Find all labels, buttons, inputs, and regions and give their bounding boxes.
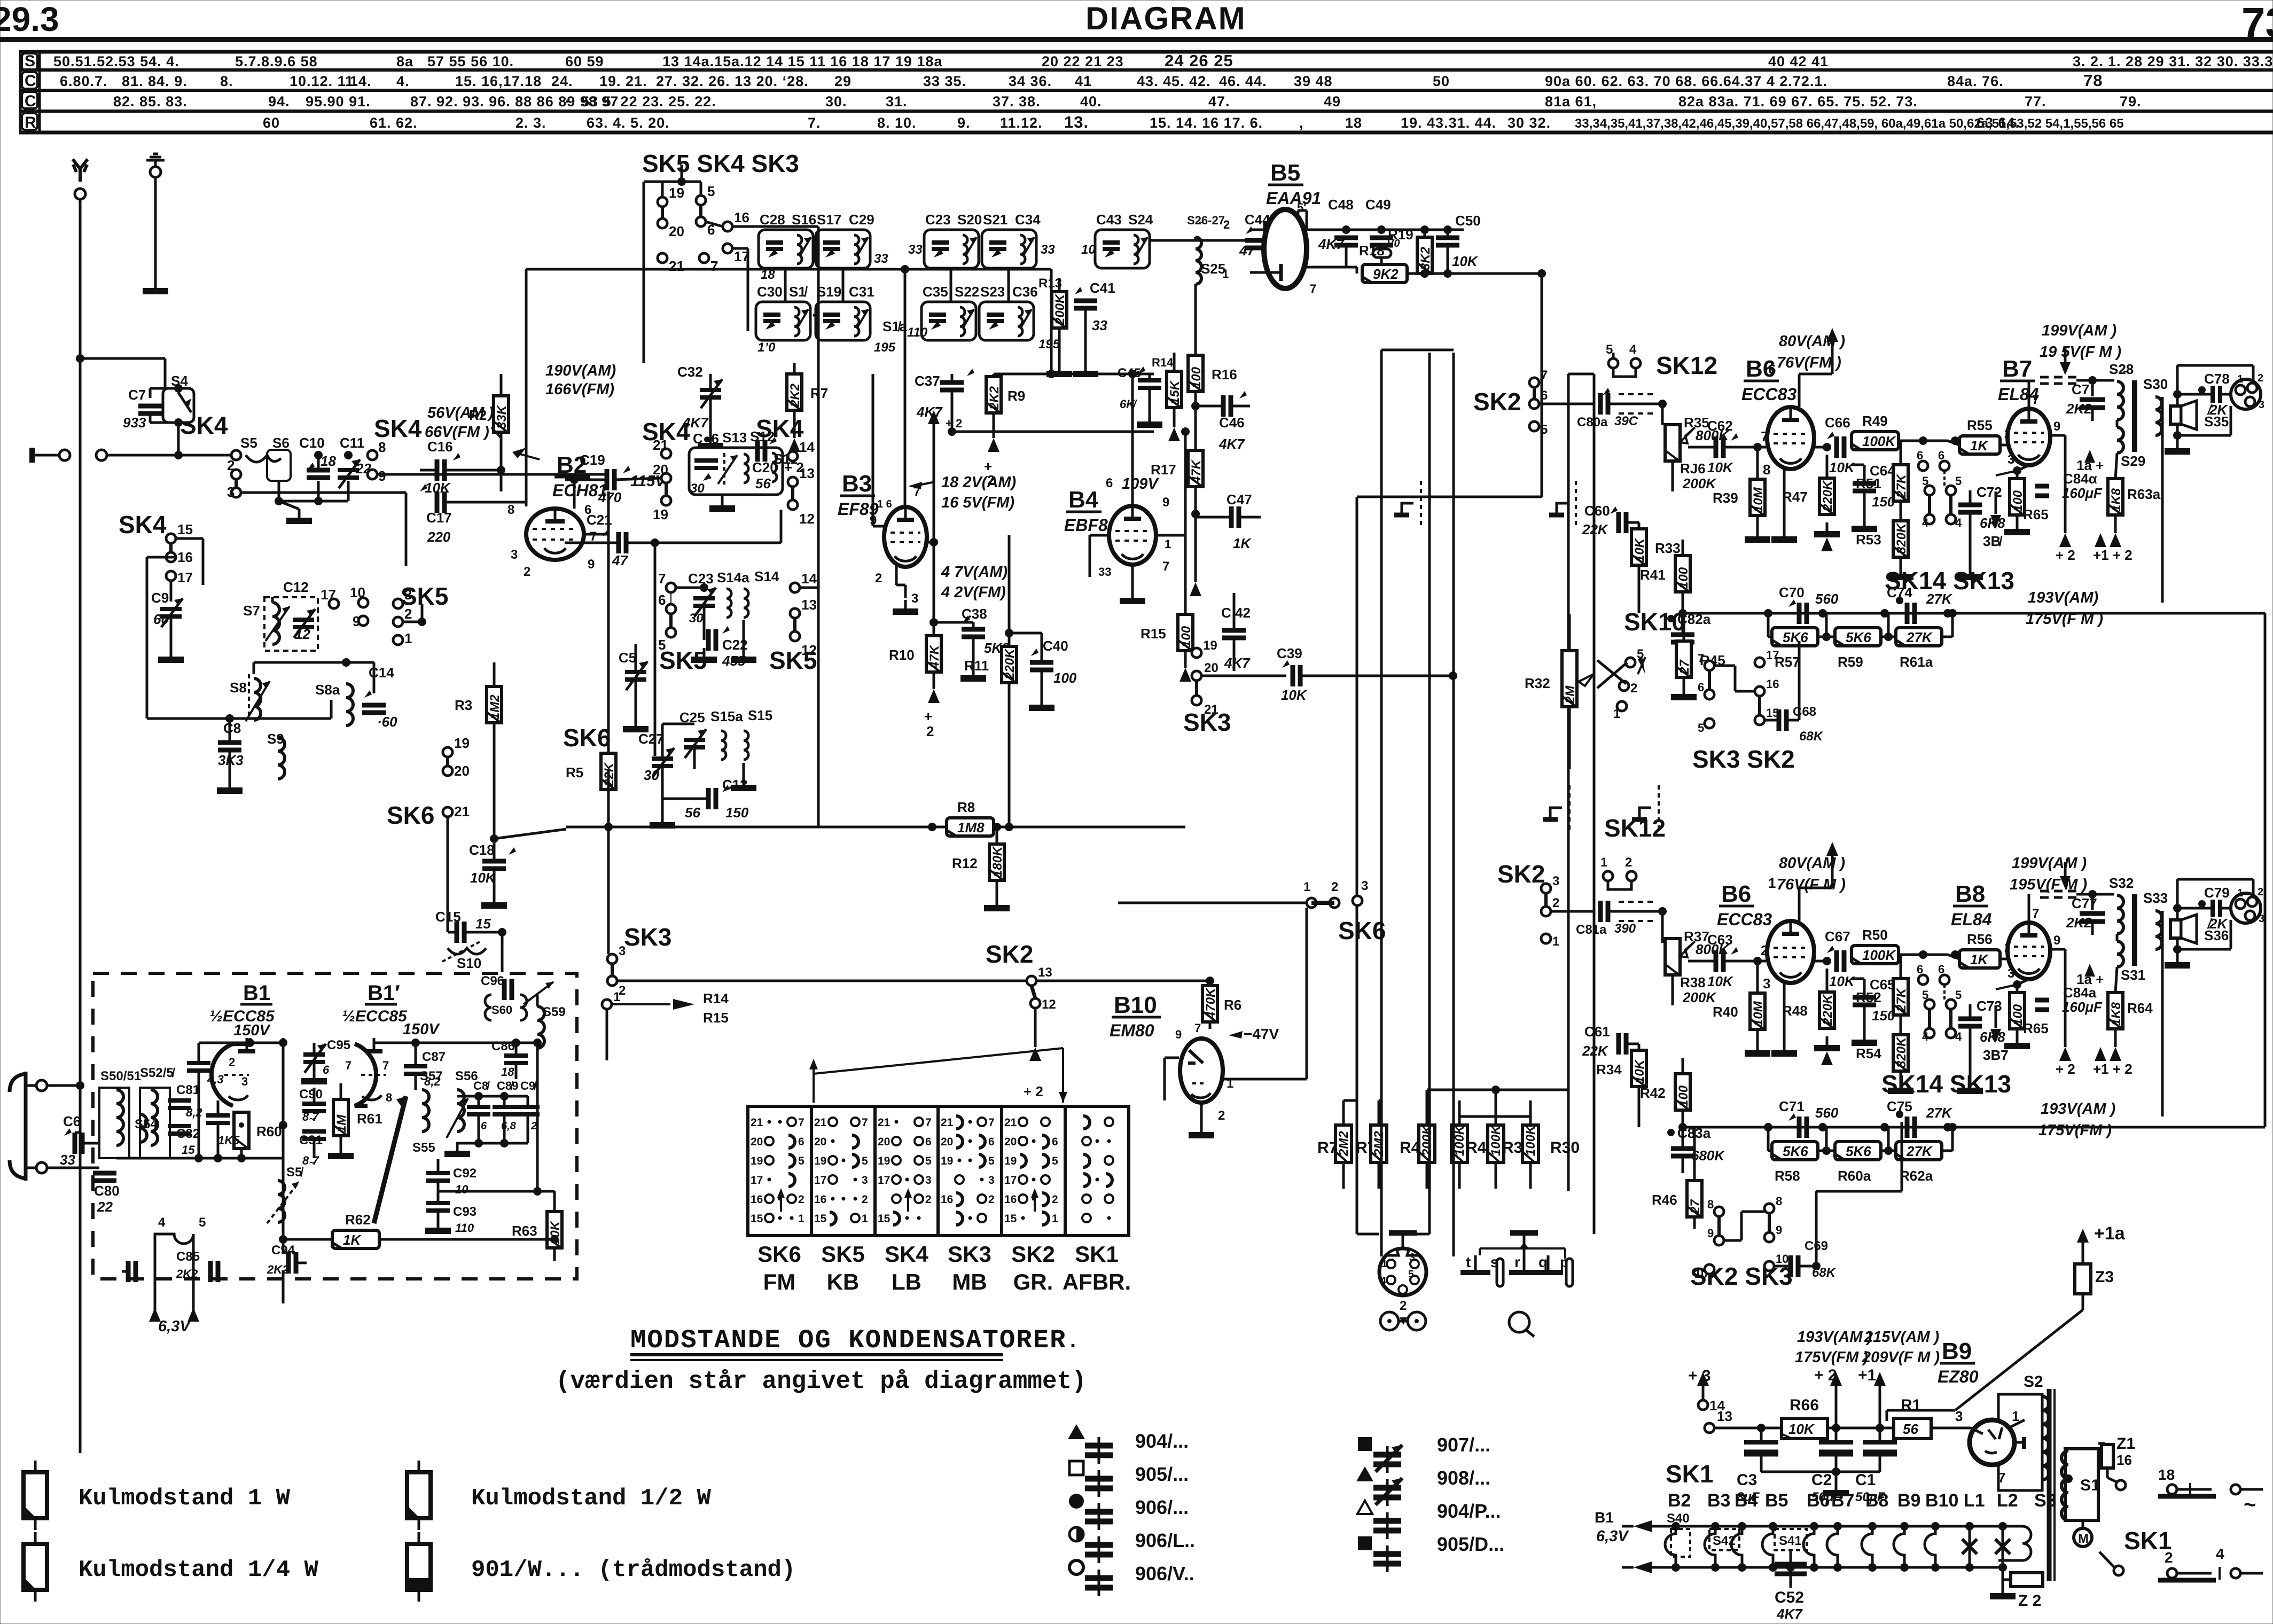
svg-text:18: 18 (321, 453, 336, 469)
resistor 2M2 (1371, 1125, 1387, 1162)
svg-text:15: 15 (751, 1213, 763, 1225)
svg-text:7: 7 (1541, 368, 1548, 382)
svg-text:27: 27 (1688, 1199, 1702, 1214)
svg-text:21: 21 (454, 803, 470, 819)
svg-text:6: 6 (798, 1136, 804, 1148)
capacitor C67 10K (1814, 960, 1831, 963)
transformer secondary S2 (1998, 1394, 2042, 1490)
svg-text:RJ6: RJ6 (1680, 460, 1706, 477)
svg-text:60 59: 60 59 (565, 53, 604, 69)
R14 15K (1167, 371, 1182, 408)
svg-text:10.12. 11.: 10.12. 11. (290, 73, 358, 89)
svg-text:27K: 27K (1926, 591, 1953, 607)
svg-text:Kulmodstand 1/2 W: Kulmodstand 1/2 W (471, 1485, 711, 1512)
svg-text:S32: S32 (2109, 875, 2134, 891)
resistor R60a 5K6 (1835, 1142, 1881, 1160)
svg-text:1: 1 (1381, 1258, 1387, 1270)
svg-text:7: 7 (658, 571, 666, 587)
C85 heater filter (155, 1234, 193, 1244)
feedback tap wire (2161, 911, 2164, 1116)
svg-text:C7: C7 (128, 387, 146, 403)
resistor R62a 27K (1896, 1142, 1942, 1160)
svg-text:S1̸: S1̸ (789, 284, 808, 300)
svg-text:ECC83: ECC83 (1717, 910, 1772, 929)
capacitor C65 150 (1853, 995, 1876, 1000)
svg-text:100K: 100K (1524, 1125, 1538, 1156)
antenna feed vertical wire (79, 199, 82, 1453)
heater of B8 (1868, 1522, 1877, 1531)
svg-text:B9: B9 (1942, 1338, 1972, 1364)
svg-text:10: 10 (350, 584, 365, 600)
svg-text:S21: S21 (983, 212, 1007, 228)
resistor R63a 1K8 (2108, 479, 2123, 515)
fuse Z2 (1998, 1563, 2007, 1572)
svg-text:2: 2 (925, 1193, 932, 1206)
svg-text:6: 6 (1917, 963, 1923, 976)
svg-text:C78: C78 (2204, 371, 2230, 387)
wire vertical x=2984 (1593, 374, 1596, 1234)
svg-text:21: 21 (653, 437, 668, 453)
connecting stubs between cans (784, 268, 787, 302)
contacts 14/13/12 (788, 451, 798, 461)
svg-text:15: 15 (814, 1213, 827, 1225)
cap type 906/L.. (1069, 1527, 1083, 1541)
resistor R64 1K8 (2108, 993, 2123, 1029)
tape recorder symbol (1380, 1312, 1399, 1330)
svg-text:3: 3 (911, 591, 918, 606)
svg-text:150: 150 (725, 805, 749, 821)
svg-text:S3: S3 (2034, 1490, 2057, 1511)
DIN plug (1379, 1248, 1426, 1295)
svg-text:2: 2 (1223, 218, 1230, 231)
svg-text:8: 8 (1776, 1194, 1782, 1208)
IF transformer C28 S16 (759, 230, 813, 268)
svg-text:2: 2 (1761, 942, 1768, 958)
svg-text:R49: R49 (1862, 413, 1888, 429)
svg-text:9: 9 (1175, 1028, 1182, 1041)
svg-text:R56: R56 (1967, 931, 1993, 947)
svg-text:S30: S30 (2143, 376, 2168, 392)
svg-text:7: 7 (1310, 282, 1316, 295)
svg-text:R14: R14 (1152, 356, 1174, 369)
cap type 905/... (1069, 1461, 1083, 1475)
svg-text:R34: R34 (1596, 1061, 1622, 1078)
svg-text:R62a: R62a (1900, 1168, 1933, 1184)
SK6 contacts 1/2/3 (1118, 902, 1307, 904)
SK4 contacts 2/3 (231, 470, 241, 479)
svg-text:C63: C63 (1707, 932, 1733, 948)
svg-text:50: 50 (1433, 73, 1450, 89)
svg-text:2: 2 (926, 723, 934, 739)
svg-text:C36: C36 (1012, 284, 1038, 300)
svg-text:19: 19 (941, 1155, 953, 1167)
svg-text:27. 32. 26. 13 20. ‘28.: 27. 32. 26. 13 20. ‘28. (656, 73, 809, 89)
svg-text:100K: 100K (1862, 947, 1896, 963)
resistor R55 1K (1959, 436, 2000, 454)
svg-text:30: 30 (689, 611, 704, 626)
SK2 SK3 lower contact cluster (1714, 1207, 1724, 1216)
wire vertical x=2936 (1567, 374, 1570, 1191)
svg-text:7: 7 (925, 1116, 932, 1129)
B+ feed wires (1050, 299, 1053, 374)
svg-text:SK6: SK6 (387, 801, 434, 829)
svg-text:R61: R61 (357, 1111, 382, 1127)
svg-text:906/V..: 906/V.. (1135, 1563, 1194, 1584)
B1 half triode (212, 1044, 246, 1106)
B3 grid right pin 8 (927, 541, 934, 544)
svg-text:17: 17 (321, 587, 336, 603)
svg-text:61. 62.: 61. 62. (370, 115, 418, 131)
svg-text:10M: 10M (1751, 1001, 1766, 1026)
svg-text:C67: C67 (1825, 928, 1850, 944)
C cathode cap (206, 1113, 230, 1118)
svg-text:C2: C2 (1811, 1471, 1832, 1489)
svg-text:7.: 7. (808, 115, 821, 131)
svg-text:S5: S5 (240, 435, 257, 451)
phono pickup symbol (1509, 1312, 1529, 1332)
output plug (2231, 379, 2261, 409)
svg-text:905/D...: 905/D... (1437, 1533, 1504, 1555)
svg-text:5: 5 (1541, 423, 1548, 437)
svg-text:C79: C79 (2204, 885, 2230, 901)
C13 150 (706, 788, 711, 809)
resistor R48 220K (1819, 992, 1834, 1028)
bottom bus + R62 (283, 1238, 554, 1241)
cap type 904/... (1068, 1424, 1085, 1439)
SK3 contacts 20/21 + C39 (1192, 671, 1201, 681)
svg-text:7: 7 (382, 1059, 389, 1072)
svg-text:B1′: B1′ (368, 981, 400, 1005)
R9 2K2 (986, 377, 1001, 413)
svg-text:4K7: 4K7 (1218, 436, 1245, 452)
svg-text:49: 49 (1324, 93, 1341, 110)
svg-text:10K: 10K (1633, 537, 1647, 562)
cap type 906/... (1069, 1494, 1084, 1509)
resistor R56 1K (1959, 950, 2000, 968)
svg-text:5K6: 5K6 (1783, 629, 1808, 645)
svg-text:5: 5 (798, 1155, 804, 1167)
svg-text:20: 20 (878, 1136, 890, 1148)
svg-text:175V(FM ): 175V(FM ) (2038, 1122, 2112, 1139)
svg-text:39C: 39C (1614, 414, 1638, 428)
svg-text:S5̸: S5̸ (286, 1165, 303, 1180)
B4 tube EBF89 (1109, 506, 1156, 565)
svg-text:C18: C18 (469, 842, 495, 858)
svg-text:R5: R5 (566, 764, 583, 780)
svg-text:10M: 10M (1751, 487, 1766, 512)
R3 1M2 (487, 686, 502, 723)
svg-text:16: 16 (941, 1193, 953, 1206)
svg-text:41: 41 (1075, 73, 1092, 89)
svg-text:22: 22 (97, 1199, 113, 1215)
svg-text:40 42 41: 40 42 41 (1768, 53, 1829, 69)
svg-text:R32: R32 (1525, 675, 1550, 691)
svg-text:EL84: EL84 (1951, 910, 1992, 929)
resistor R40 10M (1750, 993, 1765, 1029)
svg-text:S7: S7 (243, 603, 260, 619)
R10 47K (926, 636, 941, 672)
svg-text:1K: 1K (1970, 951, 1989, 967)
svg-text:1: 1 (862, 1213, 868, 1225)
resistor R59 5K6 (1835, 628, 1881, 646)
svg-text:C11: C11 (340, 435, 364, 451)
switch S42 (1709, 1529, 1739, 1550)
svg-text:10K: 10K (1829, 973, 1856, 989)
svg-text:9: 9 (1776, 1223, 1782, 1237)
svg-text:EAA91: EAA91 (1266, 189, 1321, 208)
svg-text:1K8: 1K8 (2109, 1002, 2123, 1026)
svg-text:6: 6 (1698, 681, 1704, 694)
detector tube B5 EAA91 (1264, 209, 1307, 288)
svg-text:DIAGRAM: DIAGRAM (1085, 1, 1246, 36)
svg-text:199V(AM ): 199V(AM ) (2012, 855, 2087, 872)
capacitor C79 82K (2210, 900, 2215, 917)
svg-text:5.7.8.9.6 58: 5.7.8.9.6 58 (235, 53, 318, 69)
svg-text:17: 17 (751, 1174, 763, 1186)
svg-text:R6: R6 (1224, 997, 1241, 1013)
svg-text:8: 8 (1763, 462, 1770, 478)
svg-text:14: 14 (799, 439, 815, 455)
svg-text:15: 15 (1004, 1213, 1017, 1225)
svg-text:6: 6 (1938, 449, 1944, 462)
svg-text:EM80: EM80 (1110, 1021, 1154, 1040)
svg-text:19: 19 (751, 1155, 763, 1167)
output transformer S32 / S31 (2028, 894, 2030, 922)
svg-text:21: 21 (878, 1116, 891, 1129)
svg-text:6: 6 (658, 592, 666, 608)
svg-text:8: 8 (1707, 1198, 1714, 1211)
svg-text:C62: C62 (1707, 418, 1733, 434)
heater of B5 (1769, 1522, 1777, 1531)
svg-text:1M: 1M (334, 1114, 349, 1133)
IF transformer C43 S24 (1095, 230, 1150, 268)
svg-text:B5: B5 (1765, 1490, 1788, 1511)
svg-text:43. 45. 42.: 43. 45. 42. (1137, 73, 1211, 89)
svg-text:R10: R10 (889, 647, 915, 663)
svg-text:6: 6 (988, 1136, 995, 1148)
svg-text:7: 7 (798, 1116, 804, 1129)
lamp 3687 (1965, 1522, 1974, 1531)
svg-text:200K: 200K (1053, 293, 1067, 325)
svg-text:9K2: 9K2 (1373, 266, 1399, 282)
svg-text:12: 12 (801, 642, 817, 658)
svg-text:30: 30 (644, 767, 659, 783)
svg-text:R65: R65 (2023, 1020, 2049, 1036)
heater top bus (1651, 1525, 2022, 1528)
svg-text:B7: B7 (2002, 356, 2032, 382)
svg-text:1 6: 1 6 (877, 498, 892, 510)
feedback network row (1683, 612, 2265, 615)
switch contacts SK14 SK13 (1918, 975, 1928, 985)
svg-text:2M: 2M (1563, 685, 1577, 704)
svg-text:15. 14. 16 17. 6.: 15. 14. 16 17. 6. (1150, 115, 1263, 131)
svg-text:C50: C50 (1455, 213, 1481, 229)
B2 tube ECH81 (526, 509, 584, 560)
cap type 907/... (1358, 1437, 1372, 1451)
svg-text:160μF: 160μF (2062, 485, 2103, 501)
SK12 contact pair lower (1603, 871, 1613, 881)
svg-text:5: 5 (1955, 988, 1962, 1002)
svg-text:R19: R19 (1388, 227, 1413, 243)
arrow -47V (1229, 1031, 1243, 1039)
svg-text:·: · (565, 93, 571, 110)
svg-text:47: 47 (612, 552, 628, 568)
svg-text:C90: C90 (299, 1087, 323, 1102)
svg-text:68K: 68K (1799, 729, 1824, 744)
svg-text:5: 5 (707, 183, 715, 199)
svg-text:B8: B8 (1865, 1490, 1888, 1511)
svg-text:20: 20 (941, 1136, 953, 1148)
svg-text:680K: 680K (1691, 1147, 1725, 1164)
svg-text:Kulmodstand 1 W: Kulmodstand 1 W (79, 1485, 291, 1512)
svg-text:4K7: 4K7 (916, 404, 943, 420)
svg-text:B1: B1 (243, 981, 270, 1005)
svg-text:30.: 30. (825, 93, 847, 110)
svg-text:C81: C81 (176, 1083, 200, 1097)
cathode resistor R65 100 (2010, 993, 2025, 1029)
R63 10K (547, 1212, 562, 1248)
svg-text:80V(AM ): 80V(AM ) (1779, 855, 1845, 872)
pin 13 (1705, 1423, 1714, 1433)
fuse Z1 (2098, 1442, 2105, 1445)
svg-text:+1 + 2: +1 + 2 (2093, 547, 2133, 563)
resistor R66 10K (1782, 1418, 1827, 1439)
svg-text:3: 3 (2008, 452, 2014, 467)
svg-text:90a 60. 62. 63. 7: 90a 60. 62. 63. 70 68. 66.64.37 4 2.72.1… (1545, 73, 1827, 89)
svg-text:907/...: 907/... (1437, 1434, 1490, 1456)
motor M (2074, 1528, 2092, 1547)
svg-text:34 36.: 34 36. (1009, 73, 1052, 89)
svg-text:SK3: SK3 (624, 923, 671, 951)
svg-text:3: 3 (227, 484, 235, 500)
svg-text:R60a: R60a (1838, 1168, 1871, 1184)
svg-text:B9: B9 (1897, 1490, 1920, 1511)
svg-text:27K: 27K (1894, 473, 1909, 498)
svg-text:20 22 21 23: 20 22 21 23 (1042, 53, 1124, 69)
svg-text:220: 220 (427, 529, 451, 545)
svg-text:2K2: 2K2 (987, 386, 1002, 410)
svg-text:2M2: 2M2 (1337, 1131, 1351, 1157)
svg-text:109V: 109V (1122, 475, 1159, 493)
svg-text:C1: C1 (1855, 1471, 1876, 1489)
svg-text:193V(AM ): 193V(AM ) (1797, 1329, 1872, 1346)
svg-text:13: 13 (799, 465, 815, 481)
svg-text:195: 195 (1038, 337, 1060, 352)
svg-text:1K5: 1K5 (218, 1134, 240, 1147)
svg-text:820K: 820K (1894, 522, 1909, 554)
svg-text:6: 6 (925, 1136, 932, 1148)
svg-text:2M2: 2M2 (1372, 1131, 1386, 1157)
svg-text:18: 18 (1345, 115, 1362, 131)
svg-text:9: 9 (2053, 419, 2060, 434)
svg-text:33: 33 (1098, 565, 1111, 579)
svg-text:R39: R39 (1713, 490, 1738, 506)
svg-text:29: 29 (834, 73, 852, 89)
switch S40 (1671, 1529, 1690, 1557)
svg-text:7: 7 (345, 1059, 352, 1072)
svg-text:4: 4 (1380, 1275, 1387, 1287)
secondary coil S31 (2117, 941, 2123, 967)
svg-text:R47: R47 (1782, 489, 1808, 505)
svg-text:1: 1 (1165, 537, 1171, 551)
svg-text:16: 16 (1766, 677, 1779, 691)
capacitor C78 82K (2210, 386, 2215, 403)
svg-text:6: 6 (1938, 963, 1944, 976)
svg-text:180K: 180K (990, 846, 1005, 877)
svg-text:S50/51: S50/51 (100, 1069, 141, 1083)
AGC line (566, 826, 948, 829)
svg-text:3: 3 (619, 944, 626, 958)
svg-text:C34: C34 (1015, 212, 1041, 228)
selector arrow (813, 1063, 815, 1103)
svg-text:C48: C48 (1328, 197, 1354, 213)
heater bottom bus (1651, 1566, 1998, 1569)
svg-text:2: 2 (1400, 1299, 1407, 1313)
wire 13 to R66 (1714, 1427, 1782, 1430)
svg-text:B4: B4 (1068, 487, 1099, 513)
svg-text:SK6: SK6 (1338, 917, 1386, 944)
capacitor C2 50μF (1835, 1428, 1838, 1442)
svg-text:C23: C23 (688, 571, 714, 587)
svg-text:SK2: SK2 (1497, 860, 1545, 888)
R41 100 (1675, 556, 1690, 592)
svg-text:C95: C95 (327, 1038, 350, 1052)
legend symbol kulmodstand 1/2W (418, 1461, 420, 1472)
svg-text:MODSTANDE OG KONDENSATORER.: MODSTANDE OG KONDENSATORER. (630, 1325, 1081, 1355)
svg-text:2: 2 (524, 565, 530, 579)
svg-text:R64: R64 (2127, 1000, 2153, 1016)
svg-text:19. 43.31. 44.: 19. 43.31. 44. (1401, 115, 1496, 131)
R15 100 (1178, 614, 1193, 651)
svg-text:FM: FM (763, 1269, 796, 1294)
bottom bus of B1 stage (116, 1157, 283, 1160)
svg-text:S55: S55 (412, 1141, 435, 1155)
svg-text:C30: C30 (757, 284, 783, 300)
svg-text:1: 1 (2237, 887, 2243, 899)
svg-text:21: 21 (941, 1116, 954, 1129)
svg-text:SK12: SK12 (1656, 352, 1717, 379)
resistor 2M2 (1335, 1125, 1352, 1162)
svg-text:57 55 56 10.: 57 55 56 10. (427, 53, 514, 69)
B5 top line (1297, 210, 1300, 214)
svg-text:R46: R46 (1652, 1192, 1677, 1208)
svg-text:1: 1 (1552, 934, 1559, 949)
R2 33K (494, 396, 509, 432)
capacitor C52 4K7 (1790, 1550, 1792, 1588)
svg-text:12: 12 (799, 511, 815, 527)
svg-text:½ECC85: ½ECC85 (342, 1008, 408, 1025)
ground terminal top (146, 154, 165, 166)
svg-text:16: 16 (2116, 1452, 2132, 1468)
svg-text:1K: 1K (343, 1232, 362, 1248)
svg-text:220K: 220K (1821, 994, 1835, 1026)
svg-text:8: 8 (507, 503, 514, 517)
svg-text:C23: C23 (925, 212, 951, 228)
svg-text:33: 33 (1092, 317, 1107, 333)
SK2 contacts 13/12 (1027, 976, 1036, 986)
svg-text:4K7: 4K7 (1318, 236, 1345, 252)
svg-text:Kulmodstand 1/4 W: Kulmodstand 1/4 W (79, 1557, 318, 1583)
svg-text:S19: S19 (817, 284, 841, 300)
svg-text:SK6: SK6 (757, 1242, 801, 1267)
svg-text:C70: C70 (1779, 584, 1805, 600)
svg-text:2K2: 2K2 (788, 383, 802, 408)
capacitor C77 2K2 (2091, 894, 2094, 910)
pin 14 (1698, 1400, 1708, 1410)
svg-text:2: 2 (530, 1120, 537, 1132)
svg-text:R63: R63 (512, 1223, 537, 1239)
svg-text:6: 6 (1768, 361, 1776, 377)
